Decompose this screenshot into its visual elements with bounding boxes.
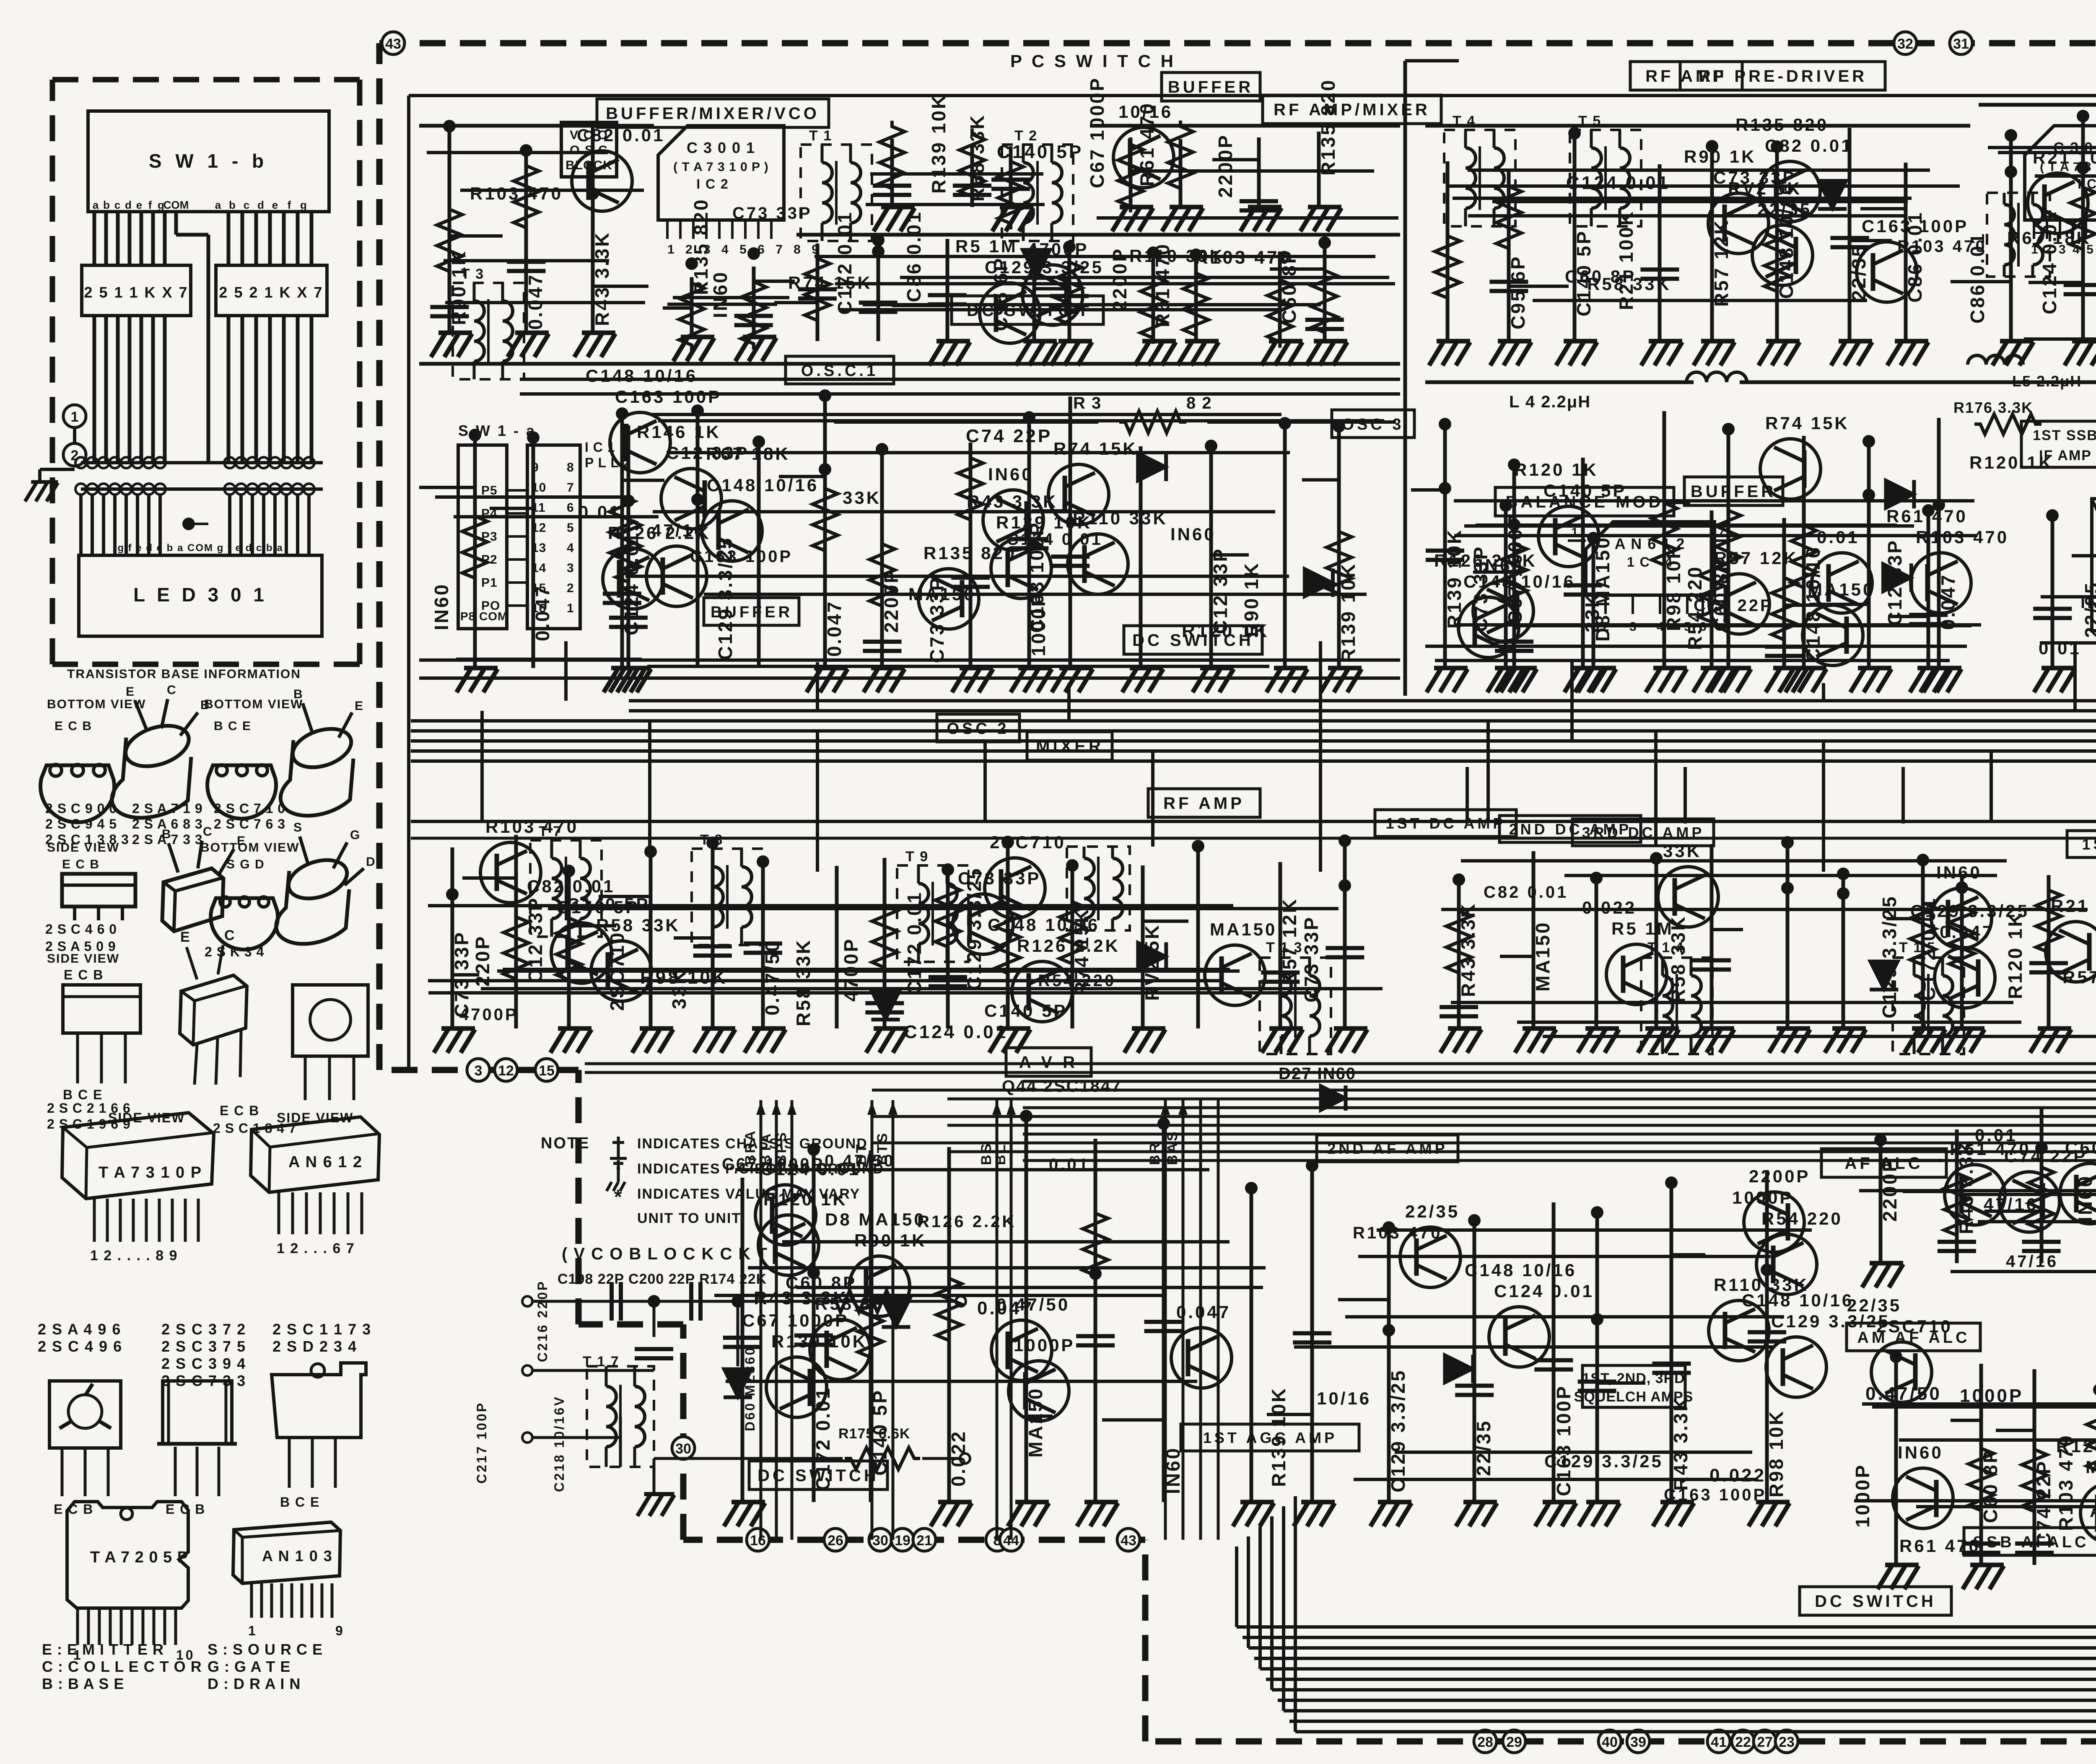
svg-text:S : S O U R C E: S : S O U R C E <box>208 1641 323 1658</box>
svg-text:R146 1K: R146 1K <box>637 422 721 442</box>
svg-text:0.47/50: 0.47/50 <box>825 1152 895 1170</box>
svg-text:R58 33K: R58 33K <box>792 938 814 1026</box>
text BALANCE MOD box <box>1495 487 1674 516</box>
text 3RD DC AMP box <box>1572 819 1714 846</box>
svg-text:C: C <box>203 825 214 839</box>
svg-text:MA150: MA150 <box>1808 580 1875 599</box>
svg-text:D : D R A I N: D : D R A I N <box>208 1675 301 1692</box>
svg-text:0.047: 0.047 <box>823 600 845 657</box>
wire top band VCO buffer section components <box>419 124 654 128</box>
svg-text:R5 1M: R5 1M <box>1611 919 1674 938</box>
svg-text:22/35: 22/35 <box>1405 1202 1460 1221</box>
transformer T5 <box>1570 130 1641 226</box>
svg-text:R57 12K: R57 12K <box>2062 967 2096 987</box>
svg-text:R67 18K: R67 18K <box>2007 228 2091 248</box>
svg-text:B: B <box>162 827 173 841</box>
node connector 23 <box>1775 1730 1798 1753</box>
svg-text:C163 100P: C163 100P <box>690 547 793 566</box>
text BUFFER box 3 <box>1684 477 1783 505</box>
svg-text:RF AMP: RF AMP <box>1163 794 1245 813</box>
svg-text:S W 1 - b: S W 1 - b <box>149 150 268 172</box>
text 1ST DC AMP box <box>1375 810 1516 837</box>
svg-text:g f e d c b a COM g f e d c b: g f e d c b a COM g f e d c b a <box>117 542 283 554</box>
svg-text:4700P: 4700P <box>459 1005 519 1024</box>
text AM AF ALC box <box>1847 1323 1980 1351</box>
svg-text:2 S C 4 9 6: 2 S C 4 9 6 <box>38 1338 122 1355</box>
node connector 41 <box>1707 1730 1730 1753</box>
svg-text:BOTTOM VIEW: BOTTOM VIEW <box>200 841 299 855</box>
svg-text:TRANSISTOR BASE INFORMATION: TRANSISTOR BASE INFORMATION <box>67 667 301 681</box>
svg-text:1: 1 <box>248 1623 258 1638</box>
svg-text:R74 15K: R74 15K <box>1053 439 1138 458</box>
wire SW1-b to diode matrix verticals <box>93 212 96 265</box>
svg-text:C124 0.01: C124 0.01 <box>1566 173 1670 193</box>
svg-text:R120 1K: R120 1K <box>1182 621 1269 641</box>
svg-text:40: 40 <box>1602 1734 1618 1750</box>
svg-text:( V C O B L O C K C K T ): ( V C O B L O C K C K T ) <box>562 1245 780 1263</box>
transistor FET tilted cylinder S G D <box>284 853 352 905</box>
wire inner top rail <box>409 94 2096 97</box>
wire oscillator row left components <box>473 435 477 668</box>
svg-text:IN60: IN60 <box>1170 524 1216 544</box>
svg-text:15: 15 <box>539 1063 555 1079</box>
svg-text:G: G <box>350 828 362 842</box>
svg-text:R43 3.3K: R43 3.3K <box>1670 1396 1691 1491</box>
svg-text:T A 7 2 0 5 P: T A 7 2 0 5 P <box>90 1549 188 1566</box>
svg-text:R58 33K: R58 33K <box>596 915 680 935</box>
transistor package rect row4 <box>163 1381 232 1444</box>
svg-text:2 S A 7 1 9: 2 S A 7 1 9 <box>132 801 203 816</box>
svg-text:E C B: E C B <box>62 857 100 871</box>
svg-text:C129 3.3/25: C129 3.3/25 <box>1878 895 1900 1018</box>
svg-text:R98 10K: R98 10K <box>1663 543 1684 631</box>
node connector 16 <box>747 1528 769 1551</box>
svg-text:C218 10/16V: C218 10/16V <box>552 1395 567 1492</box>
wire dc amp band components <box>1457 880 1461 1028</box>
svg-text:1 2 . . . . 8 9: 1 2 . . . . 8 9 <box>90 1248 178 1264</box>
svg-text:B: B <box>293 687 305 701</box>
svg-text:D27 IN60: D27 IN60 <box>1279 1065 1356 1083</box>
svg-text:B : B A S E: B : B A S E <box>42 1675 124 1692</box>
text OSC 3 box <box>1332 410 1414 438</box>
svg-text:2 S C 9 0 0: 2 S C 9 0 0 <box>45 801 117 816</box>
svg-text:( T A 7 3 1 0 P ): ( T A 7 3 1 0 P ) <box>673 160 769 174</box>
svg-text:BAS: BAS <box>1165 1130 1180 1165</box>
svg-text:2 S A 4 9 6: 2 S A 4 9 6 <box>38 1321 121 1338</box>
svg-text:1: 1 <box>567 601 574 615</box>
transistor case tilted cylinder 2SA <box>120 718 194 774</box>
svg-text:D: D <box>366 855 377 869</box>
svg-text:C : C O L L E C T O R: C : C O L L E C T O R <box>42 1658 202 1675</box>
wire buffer pocket components <box>890 139 894 207</box>
svg-text:1000P: 1000P <box>1960 1386 2023 1406</box>
svg-text:MA150: MA150 <box>1210 920 1277 939</box>
text OSC 2 box <box>937 714 1019 742</box>
svg-text:R90 1K: R90 1K <box>1684 147 1756 166</box>
node connector 22 <box>1732 1730 1754 1753</box>
svg-text:33K: 33K <box>843 488 881 508</box>
svg-text:BS: BS <box>978 1142 994 1165</box>
svg-text:R98 10K: R98 10K <box>1765 1409 1787 1497</box>
transistor package square with die <box>49 1381 121 1448</box>
svg-text:0.022: 0.022 <box>1582 898 1637 917</box>
svg-text:0.01: 0.01 <box>578 502 621 522</box>
svg-text:32: 32 <box>1897 36 1913 52</box>
svg-text:R74 15K: R74 15K <box>788 273 872 293</box>
text DC SWITCH box 1 <box>952 296 1103 324</box>
transformer T6 <box>1987 193 2050 277</box>
svg-text:C148 10/16: C148 10/16 <box>1742 1290 1854 1310</box>
transformer T1 <box>801 145 872 241</box>
text DC SWITCH box 3 <box>749 1461 887 1489</box>
svg-text:C: C <box>167 683 178 697</box>
svg-text:C140 5P: C140 5P <box>556 897 639 917</box>
svg-text:C74 22P: C74 22P <box>2004 1146 2087 1166</box>
svg-text:E: E <box>355 699 365 713</box>
wire lower-mid horizontal bus <box>585 1062 2096 1065</box>
svg-text:C82 0.01: C82 0.01 <box>527 876 615 896</box>
svg-text:R61 470: R61 470 <box>1899 1536 1981 1556</box>
svg-text:IN60: IN60 <box>1162 1447 1184 1494</box>
inductor L5 2.2uH <box>1968 355 2023 365</box>
svg-text:C124 0.01: C124 0.01 <box>1494 1281 1594 1301</box>
svg-text:R43 3.3K: R43 3.3K <box>754 1288 848 1308</box>
svg-text:0.022: 0.022 <box>947 1430 969 1487</box>
svg-text:0.47/50: 0.47/50 <box>1865 1383 1942 1404</box>
transformer T2 <box>1002 145 1073 241</box>
svg-text:4: 4 <box>567 541 574 555</box>
svg-text:A N 1 0 3: A N 1 0 3 <box>262 1547 333 1565</box>
svg-text:47/16: 47/16 <box>651 521 706 540</box>
transformer T14 <box>1641 958 1712 1054</box>
wire mid bus risers <box>480 711 484 821</box>
svg-text:R120 1K: R120 1K <box>1969 453 2054 472</box>
svg-text:I C 2: I C 2 <box>696 176 729 192</box>
svg-text:T 9: T 9 <box>905 849 929 865</box>
svg-text:P C S W I T C H: P C S W I T C H <box>1010 51 1176 71</box>
svg-text:2 S C 9 4 5: 2 S C 9 4 5 <box>45 816 117 831</box>
svg-text:IN60: IN60 <box>1936 863 1982 882</box>
transformer T15 <box>1893 958 1964 1054</box>
svg-text:e: e <box>136 199 142 211</box>
svg-text:1000P: 1000P <box>1014 1335 1075 1355</box>
svg-text:S: S <box>293 821 304 834</box>
svg-text:E: E <box>180 929 192 945</box>
svg-text:L 4 2.2μH: L 4 2.2μH <box>1509 393 1591 411</box>
node connector 43 top-left <box>382 32 405 54</box>
wire mixer / rf amp band components <box>451 847 454 1028</box>
svg-text:C60 8P: C60 8P <box>1565 267 1636 286</box>
node connector 30 <box>869 1528 892 1551</box>
svg-text:RV2 5K: RV2 5K <box>1728 179 1802 198</box>
svg-text:D60 MZ360: D60 MZ360 <box>742 1346 757 1431</box>
text BUFFER/MIXER/VCO box <box>597 99 829 127</box>
svg-text:R103 470: R103 470 <box>1897 237 1987 256</box>
svg-text:C82 0.01: C82 0.01 <box>577 125 665 145</box>
svg-text:R135 820: R135 820 <box>1735 115 1829 135</box>
svg-text:C148 10/16: C148 10/16 <box>707 475 819 495</box>
wire avr block components <box>741 1178 744 1502</box>
svg-text:C67 1000P: C67 1000P <box>722 1155 825 1173</box>
svg-text:C140 5P: C140 5P <box>869 1389 891 1476</box>
svg-text:R43 3.3K: R43 3.3K <box>1457 902 1479 997</box>
text DC SWITCH box 2 <box>1124 626 1262 654</box>
node connector 27 <box>1754 1730 1776 1753</box>
node connector 43b <box>1117 1528 1140 1551</box>
switch SW1-b block <box>88 111 329 212</box>
svg-text:C74 22P: C74 22P <box>966 426 1052 446</box>
wire af alc audio block components <box>1879 1134 1883 1263</box>
svg-text:B C E: B C E <box>280 1495 320 1510</box>
svg-text:NOTE: NOTE <box>541 1135 590 1152</box>
svg-text:3: 3 <box>567 561 574 575</box>
svg-text:D8 MA150: D8 MA150 <box>825 1210 926 1229</box>
wire top band lower rails <box>419 362 1400 366</box>
svg-text:B C E: B C E <box>214 719 252 733</box>
svg-text:P8 COM: P8 COM <box>460 610 508 623</box>
transformer T4 <box>1444 130 1515 226</box>
svg-text:C 3 0 0 1: C 3 0 0 1 <box>687 139 755 156</box>
node connector 21 <box>913 1528 936 1551</box>
svg-text:R110 33K: R110 33K <box>1129 246 1224 266</box>
text BUFFER label 2 <box>704 598 799 625</box>
svg-text:f: f <box>288 199 291 211</box>
svg-text:2 S C 3 9 4: 2 S C 3 9 4 <box>161 1355 246 1372</box>
svg-text:47/16: 47/16 <box>2006 1252 2058 1271</box>
svg-text:E: E <box>126 685 136 699</box>
svg-text:BOTTOM VIEW: BOTTOM VIEW <box>204 697 303 711</box>
svg-text:2200P: 2200P <box>1749 1166 1810 1186</box>
svg-text:47/16: 47/16 <box>1984 1194 2038 1214</box>
svg-text:C148 10/16: C148 10/16 <box>1463 572 1575 591</box>
wire d27 row on bus <box>1466 767 1469 824</box>
svg-text:12: 12 <box>498 1063 514 1079</box>
svg-text:P1: P1 <box>481 576 498 590</box>
svg-text:0.047: 0.047 <box>977 1298 1034 1318</box>
svg-text:IN60: IN60 <box>431 583 452 630</box>
svg-text:C129 3.3/25: C129 3.3/25 <box>1910 901 2029 921</box>
node connector 26 <box>824 1528 847 1551</box>
svg-text:L5 2.2μH: L5 2.2μH <box>2012 373 2082 390</box>
text 2ND AF AMP box <box>1317 1135 1458 1162</box>
svg-text:2 S D 2 3 4: 2 S D 2 3 4 <box>272 1338 357 1355</box>
svg-text:0.01: 0.01 <box>2039 638 2081 658</box>
svg-text:C172 0.01: C172 0.01 <box>834 211 856 315</box>
transformer T13 <box>1260 958 1331 1054</box>
node connector 12 <box>495 1059 517 1081</box>
svg-text:R139 10K: R139 10K <box>1268 1387 1289 1487</box>
svg-text:R74 15K: R74 15K <box>1765 413 1850 433</box>
wire RF amp mixer band components <box>1425 124 1970 128</box>
svg-text:5: 5 <box>567 521 574 535</box>
svg-text:E C B: E C B <box>64 967 104 982</box>
text OSC 1 box <box>786 356 894 384</box>
svg-text:C82 0.01: C82 0.01 <box>1765 136 1853 155</box>
svg-text:MA150: MA150 <box>2086 1457 2096 1477</box>
svg-text:R139 10K: R139 10K <box>1337 562 1359 663</box>
svg-text:2 S C 7 6 3: 2 S C 7 6 3 <box>214 816 285 831</box>
svg-text:39: 39 <box>1630 1734 1646 1750</box>
node connector 1 (display) <box>63 405 86 427</box>
svg-text:R120 1K: R120 1K <box>2056 1436 2096 1456</box>
svg-text:A N 6 1 2: A N 6 1 2 <box>288 1153 363 1171</box>
transistor side view package ECB <box>62 874 135 907</box>
svg-text:b: b <box>103 199 110 211</box>
svg-text:f: f <box>148 199 152 211</box>
wire main PC-board dashed border outline <box>379 40 2096 47</box>
svg-text:2SC710: 2SC710 <box>1876 1316 1953 1336</box>
text AF ALC box <box>1821 1149 1946 1177</box>
svg-text:R135 820: R135 820 <box>690 198 712 295</box>
svg-text:C140 5P: C140 5P <box>984 1001 1067 1021</box>
svg-text:G : G A T E: G : G A T E <box>208 1658 291 1675</box>
svg-text:41: 41 <box>1711 1734 1727 1750</box>
node connector 3 <box>467 1059 490 1081</box>
svg-text:6: 6 <box>567 501 574 515</box>
wire balance mod lower part <box>1504 505 1508 668</box>
svg-text:R120 1K: R120 1K <box>2004 911 2026 999</box>
transformer T9 <box>897 865 968 962</box>
svg-text:C129 3.3/25: C129 3.3/25 <box>1544 1451 1663 1471</box>
svg-text:1: 1 <box>71 409 79 425</box>
IC TA7310P package <box>62 1113 214 1199</box>
svg-text:3: 3 <box>475 1063 482 1079</box>
svg-text:MA150: MA150 <box>1532 921 1554 992</box>
svg-text:0.01: 0.01 <box>1817 527 1860 547</box>
svg-text:BUFFER: BUFFER <box>1168 78 1253 96</box>
svg-text:COM: COM <box>163 199 189 211</box>
svg-text:C124 0.01: C124 0.01 <box>2039 210 2060 314</box>
svg-text:L E D 3 0 1: L E D 3 0 1 <box>133 584 267 606</box>
text RF AMP box 2 <box>1148 789 1260 817</box>
svg-text:T A 7 3 1 0 P: T A 7 3 1 0 P <box>99 1164 202 1181</box>
svg-text:2 5 2 1 K X 7: 2 5 2 1 K X 7 <box>219 284 323 301</box>
svg-text:10/16: 10/16 <box>1118 102 1173 122</box>
svg-text:IN60: IN60 <box>1898 1443 1943 1462</box>
IC IC1 PLL2 <box>527 445 580 629</box>
svg-text:1ST SSB: 1ST SSB <box>2033 427 2096 443</box>
svg-text:T 1 7: T 1 7 <box>583 1354 619 1370</box>
svg-text:0.047: 0.047 <box>1176 1302 1231 1322</box>
wire bottom horizontal bus <box>1237 1625 2096 1629</box>
svg-text:R103 470: R103 470 <box>1353 1224 1442 1242</box>
svg-text:OSC 2: OSC 2 <box>947 720 1009 738</box>
node connector 28 <box>1474 1730 1497 1753</box>
svg-text:R57 12K: R57 12K <box>1279 897 1300 985</box>
svg-text:19: 19 <box>895 1533 911 1549</box>
svg-text:T 1: T 1 <box>809 128 832 144</box>
transistor FET bottom view <box>211 898 278 950</box>
text RF AMP/MIXER box <box>1263 95 1441 124</box>
svg-text:1000P: 1000P <box>1852 1464 1873 1528</box>
wire top band buffer Q1/Q2 components <box>1090 124 1400 128</box>
svg-text:C74 22P: C74 22P <box>2033 1460 2054 1546</box>
svg-text:0.022: 0.022 <box>1709 1465 1766 1486</box>
svg-text:IN60: IN60 <box>2080 593 2096 612</box>
svg-text:23: 23 <box>1779 1734 1795 1750</box>
svg-text:C129 3.3/25: C129 3.3/25 <box>1387 1369 1409 1492</box>
svg-text:29: 29 <box>1506 1734 1522 1750</box>
svg-text:a: a <box>215 199 221 211</box>
node connector 2 (display) <box>63 443 86 466</box>
svg-text:2: 2 <box>567 581 574 595</box>
transistor package TO-3P row4 <box>272 1363 366 1438</box>
svg-text:0.047: 0.047 <box>532 585 553 641</box>
wire left of avr vertical bundle (BT rails) <box>760 1100 763 1540</box>
svg-text:9: 9 <box>335 1623 345 1638</box>
wire oscillator row mid components <box>627 425 630 668</box>
svg-text:0.47/50: 0.47/50 <box>761 940 783 1015</box>
svg-text:27: 27 <box>1757 1734 1773 1750</box>
svg-text:R135 820: R135 820 <box>1317 79 1339 176</box>
svg-text:33K: 33K <box>1663 841 1702 861</box>
svg-text:SIDE VIEW: SIDE VIEW <box>47 952 119 966</box>
svg-text:2 S K 3 4: 2 S K 3 4 <box>205 944 264 959</box>
transistor case tilted cylinder B C E <box>288 722 356 774</box>
transistor tilted box side view <box>162 868 223 931</box>
node connector 19 <box>891 1528 914 1551</box>
node LED segment connector row 2 <box>75 484 86 495</box>
node connector 31 top <box>1950 32 1972 54</box>
svg-text:BUFFER/MIXER/VCO: BUFFER/MIXER/VCO <box>606 104 820 123</box>
svg-text:C67 1000P: C67 1000P <box>1086 77 1108 188</box>
IC VCO OSC BLOCK <box>561 122 617 177</box>
node connector 44 <box>1000 1528 1022 1551</box>
svg-text:C148 10/16: C148 10/16 <box>586 366 698 386</box>
svg-text:R103 470: R103 470 <box>470 184 563 203</box>
text 1ST IF AMP box <box>2067 831 2096 857</box>
IC LED 301 display <box>79 555 322 636</box>
diode D27 IN60 <box>1320 1085 1346 1111</box>
svg-text:2 S C 4 6 0: 2 S C 4 6 0 <box>45 922 117 937</box>
svg-text:IN60: IN60 <box>709 271 731 318</box>
svg-text:R43 3.3K: R43 3.3K <box>967 492 1058 511</box>
wire ssb afalc block components <box>1894 1357 1898 1565</box>
text BUFFER box <box>1162 73 1260 101</box>
transistor case bottom view BCE <box>208 765 276 819</box>
svg-text:C73 33P: C73 33P <box>732 204 812 223</box>
text 1ST SSB IF AMP box <box>2021 421 2096 467</box>
svg-text:*: * <box>614 1186 624 1208</box>
wire ic2 right pocket components <box>690 277 694 337</box>
svg-text:C140 5P: C140 5P <box>1543 481 1626 500</box>
text RF AMP box <box>1630 62 1742 90</box>
svg-text:2200P: 2200P <box>1214 134 1236 198</box>
svg-text:C198 22P C200 22P R174 22K: C198 22P C200 22P R174 22K <box>558 1271 767 1287</box>
svg-text:c: c <box>114 199 120 211</box>
svg-text:R43 3.3K: R43 3.3K <box>591 231 613 326</box>
node connector 40 <box>1598 1730 1621 1753</box>
svg-text:C148 10/16: C148 10/16 <box>1465 1260 1577 1280</box>
svg-text:R120 1K: R120 1K <box>1514 460 1598 479</box>
svg-text:BL: BL <box>993 1143 1009 1165</box>
wire top band T1/T2 mixer section components <box>796 233 1400 237</box>
wire display-board dashed border (top-left) <box>52 77 360 83</box>
svg-text:R98 10K: R98 10K <box>640 967 728 988</box>
svg-text:d: d <box>257 199 264 211</box>
svg-text:B C E: B C E <box>63 1087 103 1102</box>
svg-text:R21 100K: R21 100K <box>2033 148 2096 167</box>
svg-text:S G D: S G D <box>226 857 265 871</box>
svg-text:31: 31 <box>1953 36 1969 52</box>
svg-text:C124 0.01: C124 0.01 <box>904 1022 1008 1042</box>
wire LED matrix verticals <box>79 495 83 555</box>
svg-text:1 2 . . . 6 7: 1 2 . . . 6 7 <box>277 1241 355 1256</box>
ground near connector 2 <box>25 482 58 501</box>
svg-text:R126 2.2K: R126 2.2K <box>1434 551 1537 570</box>
IC 252 1KX7 <box>216 265 327 316</box>
svg-text:E : E M I T T E R: E : E M I T T E R <box>42 1641 164 1658</box>
